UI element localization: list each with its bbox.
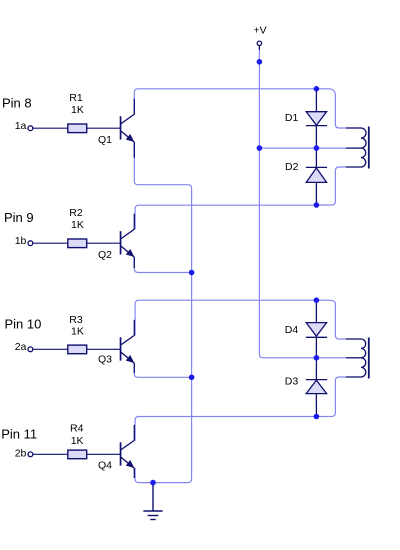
power terminal +V — [257, 41, 261, 50]
node D-chain 1 vertical — [315, 89, 317, 205]
junction relay2 bottom — [314, 414, 320, 420]
svg-text:1K: 1K — [71, 325, 84, 337]
wire input row 2 — [33, 242, 120, 244]
transistor Q2 — [121, 214, 135, 268]
svg-text:Pin 11: Pin 11 — [1, 427, 37, 442]
ground — [143, 483, 162, 520]
junction bus Q3 emitter — [189, 375, 195, 381]
wire relay1 centre tap — [259, 147, 346, 149]
svg-text:1K: 1K — [71, 219, 84, 231]
resistor R1 — [68, 124, 87, 133]
svg-text:2b: 2b — [15, 448, 27, 460]
svg-text:R1: R1 — [69, 92, 83, 104]
terminal 2b — [28, 452, 33, 457]
wire Q2 collector to relay1 bottom dot — [135, 205, 316, 229]
junction relay1 bottom — [314, 202, 320, 208]
junction relay1 middle — [314, 145, 320, 151]
relay coil K1 — [346, 127, 369, 169]
wire Q3 emitter to bus node — [134, 363, 191, 377]
svg-text:Q3: Q3 — [98, 354, 112, 366]
wire coil1 bottom lead to relay1 bottom dot — [316, 167, 346, 205]
svg-text:R4: R4 — [70, 423, 84, 435]
wire Q4 collector to relay2 bottom dot — [135, 417, 316, 441]
svg-text:Q2: Q2 — [98, 249, 112, 261]
transistor Q1 — [121, 99, 135, 158]
junction +V upper — [257, 59, 263, 65]
svg-text:D4: D4 — [285, 324, 299, 336]
junction bus Q2 emitter — [189, 270, 195, 276]
diode D3 — [306, 380, 327, 394]
terminal 1b — [28, 241, 33, 246]
wire relay1 top dot to coil1 top lead — [316, 89, 346, 128]
svg-text:1K: 1K — [71, 435, 84, 447]
junction relay2 middle — [314, 355, 320, 361]
junction relay1 top — [314, 86, 320, 92]
svg-text:2a: 2a — [15, 341, 27, 353]
svg-text:+V: +V — [254, 25, 267, 37]
svg-text:1a: 1a — [15, 120, 27, 132]
wire relay2 top dot to coil2 top lead — [316, 300, 346, 339]
junction ground node — [150, 480, 156, 486]
relay coil K2 — [346, 338, 369, 379]
diode D4 — [306, 323, 327, 338]
svg-text:Pin 10: Pin 10 — [5, 316, 42, 331]
wire Q2 emitter to bus node — [134, 257, 191, 272]
svg-text:D3: D3 — [285, 376, 299, 388]
transistor Q3 — [121, 320, 135, 373]
wire Q1 emitter to ground bus — [134, 142, 191, 483]
svg-text:1b: 1b — [15, 235, 27, 247]
svg-text:Q1: Q1 — [98, 134, 112, 146]
wire +V rail down to relay2 centre tap — [259, 46, 346, 358]
svg-text:Q4: Q4 — [98, 459, 112, 471]
svg-text:R2: R2 — [69, 207, 83, 219]
transistor Q4 — [121, 425, 135, 478]
resistor R4 — [68, 450, 87, 459]
terminal 2a — [28, 347, 33, 352]
diode D1 — [306, 112, 327, 126]
terminal 1a — [28, 126, 33, 131]
resistor R2 — [68, 239, 87, 248]
wire Q1 collector to relay1 top — [134, 89, 316, 115]
junction relay2 top — [314, 297, 320, 303]
node D-chain 2 vertical — [315, 300, 317, 416]
svg-text:R3: R3 — [69, 314, 83, 326]
wire input row 4 — [33, 453, 120, 455]
diode D2 — [306, 167, 327, 182]
svg-text:Pin 9: Pin 9 — [4, 210, 34, 225]
resistor R3 — [68, 345, 87, 354]
wire input row 3 — [33, 348, 120, 350]
wire input row 1 — [33, 127, 120, 129]
svg-text:D1: D1 — [285, 112, 299, 124]
svg-text:1K: 1K — [71, 104, 84, 116]
wire Q3 collector to relay2 top — [135, 300, 316, 335]
junction +V relay1 tap — [257, 145, 263, 151]
wire Q4 emitter to ground node — [135, 468, 153, 483]
svg-text:Pin 8: Pin 8 — [2, 95, 32, 110]
wire coil2 bottom lead to relay2 bottom dot — [316, 377, 346, 417]
svg-text:D2: D2 — [285, 161, 299, 173]
